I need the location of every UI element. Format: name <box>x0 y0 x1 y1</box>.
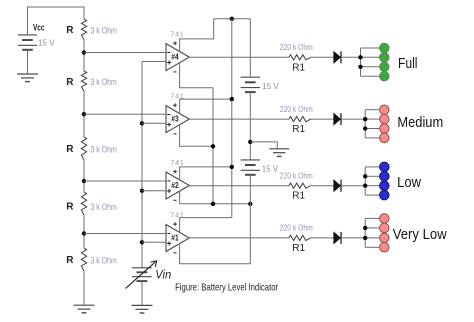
wire: -15 feed line from battery bottom <box>180 203 251 205</box>
diode D3 <box>334 180 341 192</box>
wire: LED stub 4 row 4 <box>365 246 379 248</box>
svg-text:Figure: Battery Level Indicato: Figure: Battery Level Indicator <box>175 282 278 294</box>
LED Full3 <box>380 62 390 72</box>
node ladder tap 1 <box>82 50 86 54</box>
ground: supply midpoint <box>269 148 289 150</box>
LED Low3 <box>380 181 390 191</box>
svg-text:Vcc: Vcc <box>33 22 45 32</box>
resistor R (3 k Ohm) #2 of ladder <box>66 71 117 91</box>
wire: midpoint to ground <box>250 142 277 149</box>
svg-text:Very Low: Very Low <box>393 226 447 243</box>
node bracket junction a row 3 <box>363 174 367 178</box>
wire: R1 to diode row 2 <box>311 118 334 120</box>
node bracket junction b row 4 <box>363 236 367 240</box>
wire: Vin bus to op-amp U4 + input <box>142 61 166 63</box>
diode D4 <box>334 232 341 244</box>
svg-text:741: 741 <box>170 158 184 167</box>
wire: U4 V- drop to -15 rail <box>180 62 213 87</box>
LED Full4 <box>380 71 390 81</box>
wire: Vin bus to op-amp U2 + input <box>142 190 166 192</box>
LED Low1 <box>380 162 390 172</box>
svg-text:R: R <box>66 255 74 266</box>
resistor R1 (220 k Ohm) row 2 <box>280 104 313 135</box>
LED Full1 <box>380 43 390 53</box>
wire: -15V vertical rail <box>212 88 214 204</box>
wire: LED stub 2 row 3 <box>365 175 379 177</box>
svg-text:#4: #4 <box>171 53 179 62</box>
svg-text:3 k Ohm: 3 k Ohm <box>91 144 117 154</box>
wire: LED stub 4 row 1 <box>361 75 380 77</box>
resistor R1 (220 k Ohm) row 3 <box>280 171 313 202</box>
svg-text:R: R <box>66 25 74 36</box>
wire: op-amp output row 1 to resistor R1 <box>189 56 289 58</box>
wire: Vin bus to op-amp U1 + input <box>142 241 166 243</box>
svg-text:15 V: 15 V <box>38 38 55 48</box>
resistor R (3 k Ohm) #4 of ladder <box>66 192 117 215</box>
wire: LED stub 3 row 2 <box>365 128 379 130</box>
wire: R1 to diode row 4 <box>311 237 334 239</box>
svg-text:Vin: Vin <box>155 270 171 282</box>
wire: LED stub 2 row 4 <box>365 227 379 229</box>
node ladder tap 2 <box>82 112 86 116</box>
resistor R1 (220 k Ohm) row 1 <box>280 42 313 73</box>
battery B1 plates <box>241 76 260 78</box>
node +15 rail to U2 <box>230 165 234 169</box>
svg-text:Low: Low <box>397 174 421 191</box>
node -15 rail to U3 <box>211 144 215 148</box>
svg-text:Full: Full <box>398 55 418 72</box>
op-amp U4 (741 #4) <box>166 29 189 72</box>
wire: Vin source to ground <box>141 281 143 305</box>
wire: R1 to diode row 1 <box>311 56 334 58</box>
wire: LED stub 4 row 2 <box>365 137 379 139</box>
svg-text:R1: R1 <box>292 62 305 73</box>
wire: U3 V+ riser <box>180 99 232 113</box>
svg-text:#2: #2 <box>171 181 179 190</box>
svg-text:R1: R1 <box>292 124 305 135</box>
svg-text:220 k Ohm: 220 k Ohm <box>280 223 313 233</box>
node supply midpoint <box>248 140 252 144</box>
wire: LED stub 2 row 1 <box>361 56 380 58</box>
wire: diode to LED bracket row 2 <box>341 118 365 120</box>
svg-text:R1: R1 <box>292 191 305 202</box>
svg-text:#3: #3 <box>171 115 179 124</box>
wire: LED stub 3 row 3 <box>365 185 379 187</box>
svg-text:3 k Ohm: 3 k Ohm <box>91 25 117 35</box>
svg-text:15 V: 15 V <box>262 81 279 91</box>
source Vin (variable battery) <box>126 261 172 289</box>
LED Low4 <box>380 190 390 200</box>
LED Medium1 <box>380 105 390 115</box>
wire: top rail from Vcc battery to ladder <box>28 7 85 35</box>
wire: rail to battery B1 <box>249 19 251 77</box>
wire: U2 V- drop <box>179 191 181 204</box>
wire: LED stub 1 row 3 <box>365 166 379 168</box>
wire: diode to LED bracket row 1 <box>341 56 361 58</box>
wire: LED bracket vertical row 2 <box>364 110 366 138</box>
wire: U4 V+ to top rail <box>180 19 214 52</box>
LED Low2 <box>380 172 390 182</box>
LED Medium3 <box>380 124 390 134</box>
LED VeryLow4 <box>380 243 390 253</box>
wire: U3 V- drop <box>180 125 213 146</box>
wire: op-amp output row 4 to resistor R1 <box>189 237 289 239</box>
svg-text:3 k Ohm: 3 k Ohm <box>91 256 117 266</box>
wire: LED bracket vertical row 1 <box>360 48 362 76</box>
resistor R1 (220 k Ohm) row 4 <box>280 223 313 254</box>
wire: R1 to diode row 3 <box>311 185 334 187</box>
diode D2 <box>334 113 341 125</box>
svg-text:Medium: Medium <box>397 114 443 131</box>
node bracket junction b row 1 <box>358 65 362 69</box>
svg-text:R1: R1 <box>292 243 305 254</box>
resistor R (3 k Ohm) #5 of ladder <box>66 248 117 271</box>
wire: LED stub 1 row 4 <box>365 217 379 219</box>
wire: ladder tap 4 to op-amp inverting input <box>84 233 166 235</box>
wire: Vin bus vertical <box>141 62 143 268</box>
wire: Vin bus to op-amp U3 + input <box>142 122 166 124</box>
wire: LED stub 2 row 2 <box>365 118 379 120</box>
svg-text:741: 741 <box>170 29 184 38</box>
node Vin bus to U3 <box>140 121 144 125</box>
wire: LED stub 3 row 1 <box>361 66 380 68</box>
svg-text:220 k Ohm: 220 k Ohm <box>280 171 313 181</box>
svg-text:3 k Ohm: 3 k Ohm <box>91 202 117 212</box>
op-amp U2 (741 #2) <box>166 158 189 201</box>
wire: LED stub 3 row 4 <box>365 237 379 239</box>
wire: LED bracket vertical row 3 <box>364 167 366 195</box>
wire: U1 V+ riser <box>179 218 181 233</box>
ground: bottom of ladder <box>74 304 95 306</box>
diode D1 <box>334 51 341 63</box>
wire: op-amp output row 2 to resistor R1 <box>189 118 289 120</box>
svg-text:R: R <box>66 144 74 155</box>
node bracket junction a row 1 <box>358 55 362 59</box>
op-amp U3 (741 #3) <box>166 91 189 133</box>
wire: U2 V+ riser <box>180 167 232 180</box>
wire: ladder tap 3 to op-amp inverting input <box>84 180 166 182</box>
LED Medium4 <box>380 133 390 143</box>
wire: B2 down to U1 V- feed <box>249 174 251 263</box>
wire: ladder vertical segments <box>83 40 85 72</box>
node bracket junction b row 2 <box>363 126 367 130</box>
node battery column / feed junction <box>248 202 252 206</box>
wire: op-amp output row 3 to resistor R1 <box>189 185 289 187</box>
op-amp U1 (741 #1) <box>166 210 189 253</box>
node ladder tap 3 <box>82 179 86 183</box>
wire: U1 V- drop <box>180 245 251 264</box>
wire: LED stub 4 row 3 <box>365 194 379 196</box>
wire: LED bracket vertical row 4 <box>364 218 366 247</box>
svg-text:15 V: 15 V <box>262 163 279 173</box>
resistor R (3 k Ohm) #3 of ladder <box>66 137 117 160</box>
node top rail / +15 rail junction <box>230 17 234 21</box>
LED VeryLow1 <box>380 214 390 224</box>
wire: B1 to B2 <box>249 92 251 160</box>
battery B2 plates <box>241 159 260 161</box>
svg-text:3 k Ohm: 3 k Ohm <box>91 77 117 87</box>
wire: LED stub 1 row 2 <box>365 109 379 111</box>
wire: ladder tap 1 to op-amp inverting input <box>84 52 166 54</box>
ground: below Vcc battery <box>17 73 38 75</box>
svg-text:220 k Ohm: 220 k Ohm <box>280 104 313 114</box>
node Vin bus to U1 <box>140 240 144 244</box>
node bracket junction a row 4 <box>363 226 367 230</box>
wire: ladder tap 2 to op-amp inverting input <box>84 113 166 115</box>
wire: Vcc battery to ground <box>27 50 29 74</box>
wire: diode to LED bracket row 3 <box>341 185 365 187</box>
node +15 rail to U3 <box>230 97 234 101</box>
LED VeryLow2 <box>380 223 390 233</box>
svg-text:R: R <box>66 202 74 213</box>
svg-text:#1: #1 <box>171 234 179 243</box>
node bracket junction b row 3 <box>363 184 367 188</box>
LED Full2 <box>380 53 390 63</box>
ground: below Vin source <box>132 304 153 306</box>
wire: LED stub 1 row 1 <box>361 47 380 49</box>
node -15 rail / feed junction <box>211 202 215 206</box>
svg-text:R: R <box>66 77 74 88</box>
resistor R (3 k Ohm) #1 of ladder <box>66 19 117 40</box>
LED Medium2 <box>380 114 390 124</box>
node bracket junction a row 2 <box>363 117 367 121</box>
LED VeryLow3 <box>380 233 390 243</box>
wire: top supply rail <box>214 18 251 20</box>
node Vin bus to U2 <box>140 189 144 193</box>
wire: +15V vertical rail <box>180 19 232 218</box>
svg-text:220 k Ohm: 220 k Ohm <box>280 42 313 52</box>
node ladder tap 4 <box>82 231 86 235</box>
wire: diode to LED bracket row 4 <box>341 237 365 239</box>
battery Vcc plates <box>18 34 37 36</box>
